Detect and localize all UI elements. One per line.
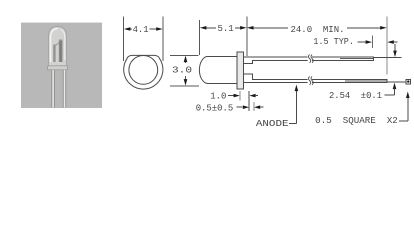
svg-text:5.1: 5.1	[217, 24, 233, 34]
svg-text:1.0: 1.0	[210, 92, 226, 102]
svg-text:2.54 ±0.1: 2.54 ±0.1	[329, 91, 382, 101]
svg-text:24.0 MIN.: 24.0 MIN.	[291, 25, 345, 35]
svg-text:0.5±0.5: 0.5±0.5	[196, 104, 234, 114]
svg-text:0.5 SQUARE X2: 0.5 SQUARE X2	[315, 116, 398, 126]
svg-text:ANODE: ANODE	[256, 119, 289, 129]
svg-text:3.0: 3.0	[172, 66, 192, 76]
svg-text:1.5 TYP.: 1.5 TYP.	[313, 37, 354, 47]
svg-text:4.1: 4.1	[133, 25, 149, 35]
